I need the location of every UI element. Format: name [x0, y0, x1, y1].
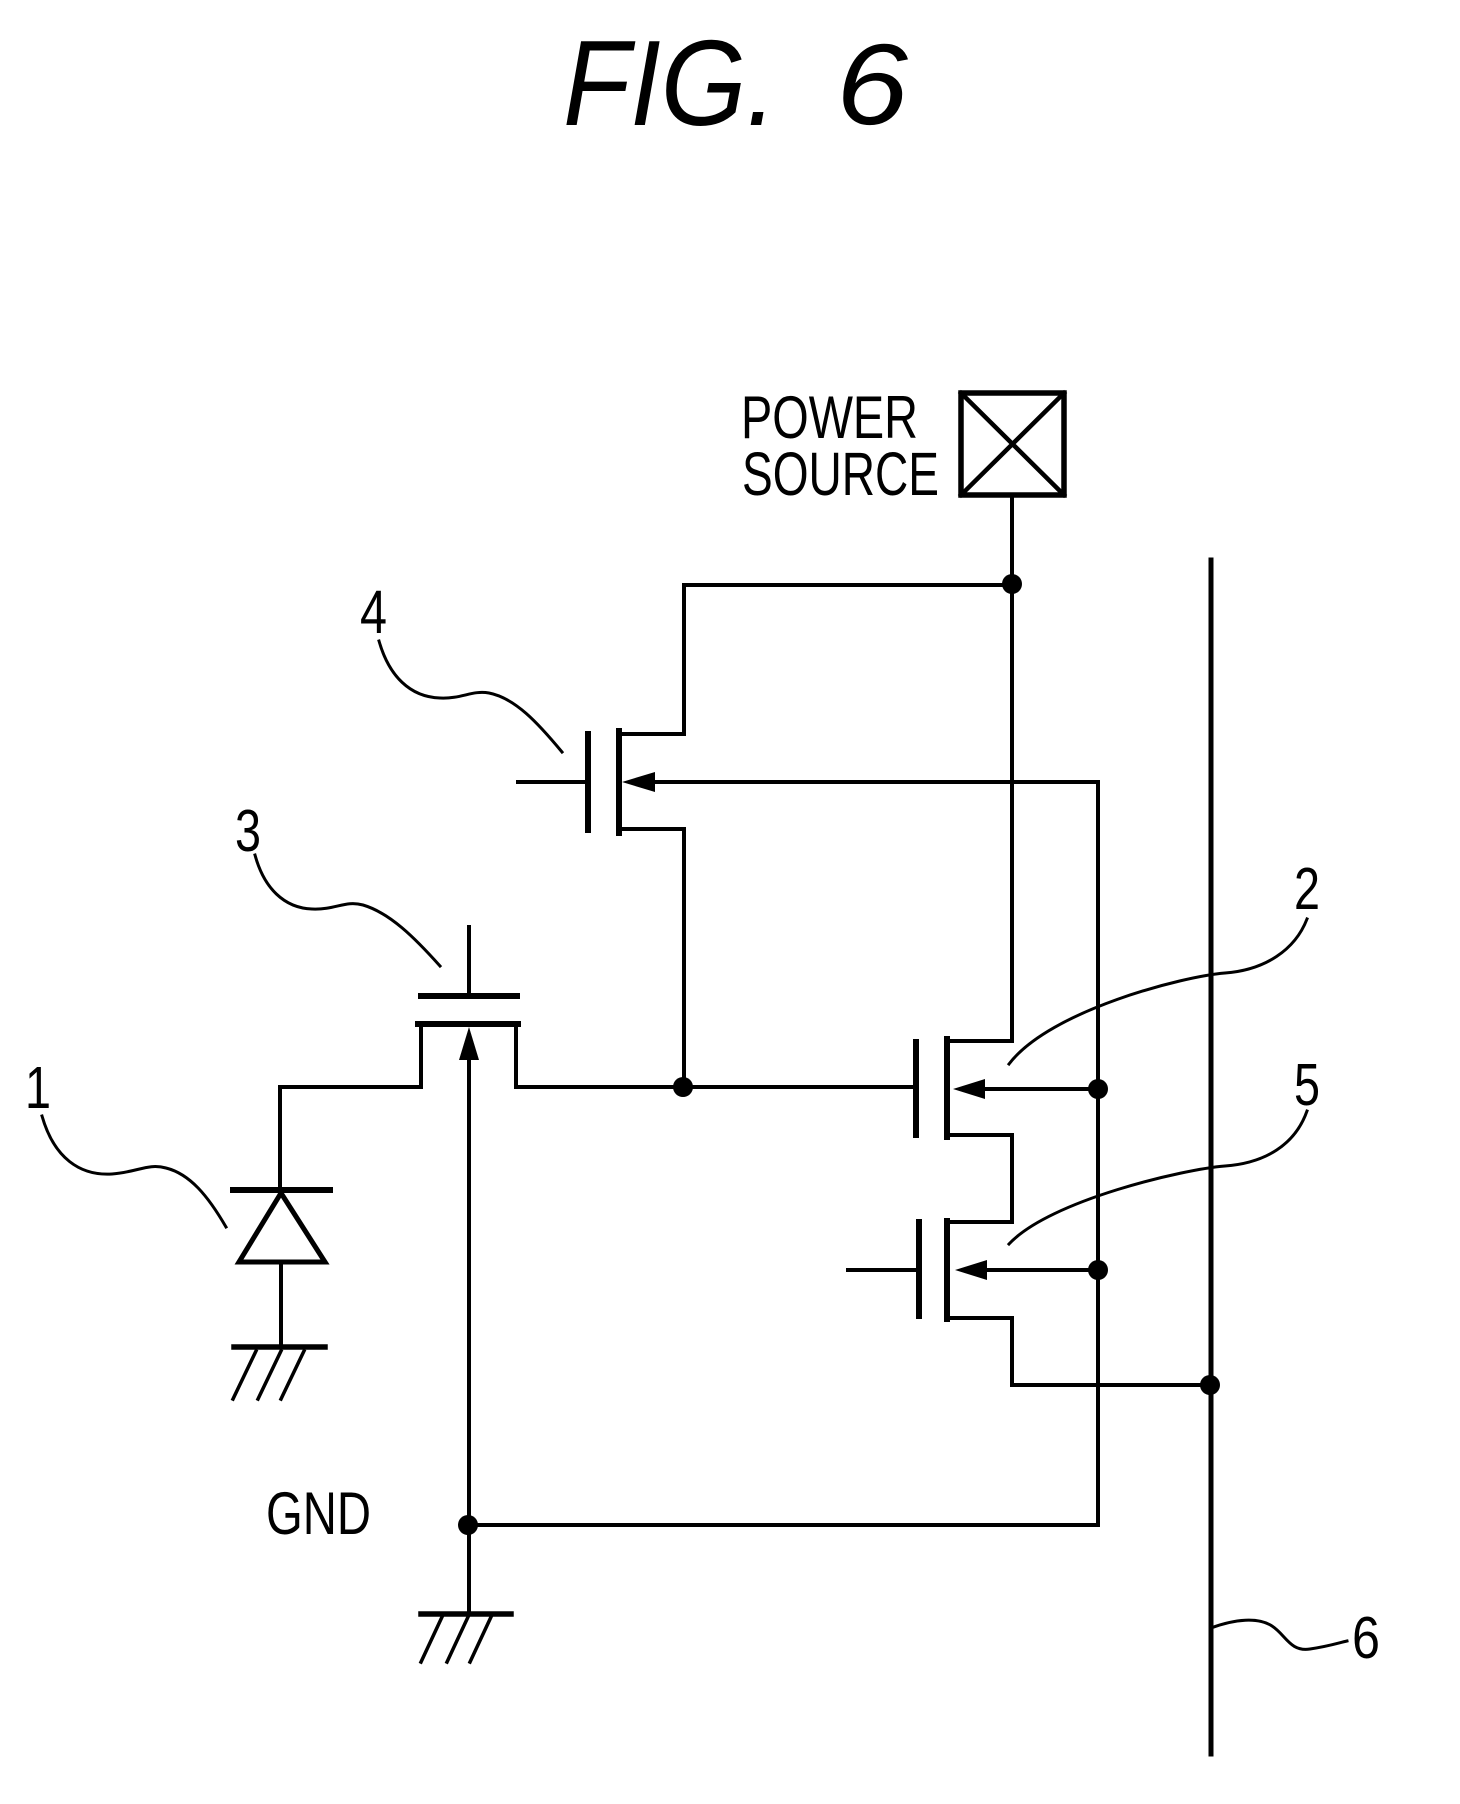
transistor 2 drain lead [947, 1039, 1012, 1043]
leader 3 [255, 855, 440, 966]
svg-text:FIG.: FIG. [563, 15, 777, 151]
GND hatch 2 [447, 1617, 468, 1662]
wire right feedback vertical [1096, 782, 1100, 1524]
wire GND horizontal [468, 1523, 1098, 1527]
wire T4 source vertical [682, 829, 686, 1087]
leader 2 [1009, 919, 1307, 1064]
power source pad (box with X) [961, 393, 1064, 495]
transistor 3 source lead [419, 1024, 423, 1087]
wire transistor 2 body arrow line [980, 1087, 1099, 1091]
transistor 3 gate bar [421, 993, 517, 999]
wire bottom horizontal to output line [1012, 1383, 1210, 1387]
arrowhead into transistor 5 [955, 1260, 987, 1280]
ground bar GND [421, 1611, 511, 1617]
output line 6 vertical [1209, 560, 1214, 1754]
ground hatch 3 [281, 1351, 304, 1399]
arrowhead into transistor 2 [953, 1079, 985, 1099]
transistor 4 drain lead [619, 732, 684, 736]
svg-text:6: 6 [836, 21, 908, 149]
title FIG. 6 [563, 15, 908, 151]
label 6 [1352, 1605, 1380, 1671]
ground bar under photodiode [234, 1344, 325, 1350]
label 1 [25, 1055, 51, 1121]
node A junction dot [673, 1077, 693, 1097]
photodiode 1 cathode bar [233, 1187, 330, 1193]
label 3 [235, 798, 261, 864]
transistor 3 gate lead vertical [467, 927, 471, 993]
leader 5 [1009, 1111, 1307, 1244]
transistor 2 source lead [947, 1133, 1012, 1137]
wire photodiode vertical [278, 1087, 282, 1190]
node D junction dot on line 6 [1200, 1375, 1220, 1395]
transistor 5 source lead [947, 1316, 1012, 1320]
GND hatch 3 [470, 1617, 491, 1662]
transistor 3 drain lead [514, 1024, 518, 1087]
transistor 5 drain lead [947, 1220, 1012, 1224]
wire T3 body line vertical (to GND) [467, 1055, 471, 1614]
leader 6 [1211, 1620, 1347, 1649]
svg-text:4: 4 [360, 578, 387, 646]
wire T4 drain vertical [682, 585, 686, 734]
GND hatch 1 [421, 1617, 442, 1662]
wire top horizontal (T4 drain to power node) [684, 583, 1012, 587]
arrowhead into transistor 4 [622, 772, 655, 792]
wire T4 body arrow line [652, 780, 1098, 784]
label 2 [1294, 856, 1320, 922]
svg-text:3: 3 [235, 798, 261, 864]
svg-text:SOURCE: SOURCE [742, 440, 939, 508]
transistor 2 gate bar [913, 1042, 919, 1135]
wire power line vertical [1010, 585, 1014, 1041]
transistor 4 gate bar [585, 734, 591, 830]
svg-text:2: 2 [1294, 856, 1320, 922]
wire transistor 5 body arrow line [982, 1268, 1098, 1272]
ground hatch 2 [258, 1351, 281, 1399]
svg-text:6: 6 [1352, 1605, 1380, 1671]
transistor 4 gate lead [518, 780, 585, 784]
transistor 4 channel bar [616, 731, 622, 833]
transistor 5 channel bar [944, 1221, 950, 1319]
label 5 [1294, 1052, 1320, 1118]
transistor 5 gate lead [848, 1268, 916, 1272]
GND junction dot [458, 1515, 478, 1535]
transistor 4 source lead [619, 827, 684, 831]
wire to photodiode horizontal [280, 1085, 421, 1089]
photodiode 1 anode lead [279, 1262, 283, 1347]
transistor 2 channel bar [944, 1039, 950, 1137]
wire transistor 5 source vertical [1010, 1318, 1014, 1385]
transistor 5 gate bar [916, 1222, 922, 1316]
label GND [266, 1480, 371, 1547]
wire power pad to node [1010, 495, 1014, 585]
arrowhead into transistor 3 body [459, 1027, 479, 1060]
label POWER SOURCE [741, 384, 939, 508]
label 4 [360, 578, 387, 646]
photodiode 1 triangle [239, 1193, 325, 1262]
leader 4 [379, 641, 562, 752]
node C junction dot [1088, 1260, 1108, 1280]
wire node A horizontal (T3 to T2 gate) [516, 1085, 916, 1089]
transistor 3 channel bar [418, 1021, 518, 1027]
wire power line between U2 and U5 [1010, 1135, 1014, 1222]
node B junction dot [1088, 1079, 1108, 1099]
node power junction dot [1002, 574, 1022, 594]
leader 1 [42, 1116, 226, 1227]
ground hatch 1 [233, 1351, 256, 1399]
svg-text:1: 1 [25, 1055, 51, 1121]
svg-text:GND: GND [266, 1480, 371, 1547]
svg-text:5: 5 [1294, 1052, 1320, 1118]
